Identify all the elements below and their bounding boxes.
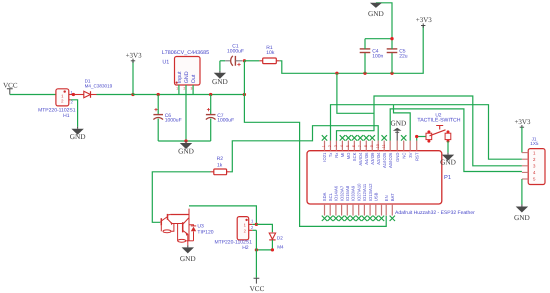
pin 15 3V (409, 141, 411, 151)
pin bottom IO27/A10 (358, 204, 360, 216)
junction C1 right (243, 59, 246, 62)
junction ground rail (184, 139, 187, 142)
pin bottom IO12/A11 (363, 204, 365, 216)
svg-text:3: 3 (190, 86, 192, 90)
svg-text:6: 6 (352, 145, 356, 147)
svg-text:TACTILE-SWITCH: TACTILE-SWITCH (417, 118, 460, 124)
svg-text:GND: GND (514, 213, 530, 222)
pin 3 Rx (335, 141, 337, 151)
svg-text:9: 9 (370, 145, 374, 147)
ground GND (H1) (77, 127, 79, 129)
ground GND (U3) (187, 245, 189, 247)
ground GND (top, C4/C5) (370, 3, 382, 8)
svg-text:1: 1 (176, 86, 178, 90)
svg-text:5: 5 (346, 145, 350, 147)
svg-text:7: 7 (358, 145, 362, 147)
wire D1 to +3V3 junction (97, 94, 134, 96)
wire switch to ground (447, 141, 449, 153)
wire main 6V rail (133, 94, 244, 96)
svg-text:R2: R2 (217, 156, 224, 162)
junction RST (415, 135, 418, 138)
U1 pin GND wire to ground rail (185, 85, 187, 141)
pin bottom BAT (391, 204, 393, 216)
pin 10 A2/I34 (377, 141, 379, 151)
svg-text:A4/I36: A4/I36 (364, 152, 369, 165)
junction C4 (363, 72, 366, 75)
svg-text:H2: H2 (242, 245, 249, 251)
svg-text:U3: U3 (197, 223, 204, 229)
junction C6 (157, 93, 160, 96)
pin 9 A3/I39 (371, 141, 373, 151)
wire Tx to J1 pin2 (331, 105, 522, 160)
svg-text:SCK: SCK (352, 152, 357, 161)
pin 11 A1/IO25 (383, 141, 385, 151)
svg-text:GND: GND (184, 71, 190, 83)
svg-text:3V: 3V (408, 152, 413, 157)
wire C1 junction down to rail (243, 61, 245, 95)
svg-text:MO: MO (346, 152, 351, 159)
pin 12 A0/IO26 (389, 141, 391, 151)
wire emitter to ground (187, 244, 189, 247)
svg-text:A3/I39: A3/I39 (370, 152, 375, 165)
pin bottom IO33/A9 (352, 204, 354, 216)
svg-text:3: 3 (334, 145, 338, 147)
svg-text:SCL: SCL (328, 192, 333, 201)
svg-text:10k: 10k (266, 50, 275, 56)
svg-text:EN: EN (384, 195, 389, 201)
svg-text:RST: RST (414, 152, 419, 161)
svg-text:GND: GND (440, 158, 456, 167)
svg-text:+3V3: +3V3 (514, 118, 531, 126)
wire C4/C5 top ground rail (365, 3, 392, 39)
pin 13 GND (396, 141, 398, 151)
wire D2 bottom to VCC net (256, 249, 272, 251)
svg-text:M4_C383019: M4_C383019 (85, 83, 113, 88)
svg-text:IO13/A12: IO13/A12 (368, 183, 373, 201)
svg-text:2: 2 (328, 145, 332, 147)
pin bottom IO15/A8 (346, 204, 348, 216)
U1 pin Input (178, 85, 180, 95)
svg-text:22u: 22u (399, 54, 408, 60)
svg-text:H1: H1 (63, 113, 70, 119)
svg-text:IO15/A8: IO15/A8 (345, 185, 350, 201)
H1 pin 2 wire to ground (69, 99, 71, 101)
IC P1 Adafruit Huzzah32 ESP32 Feather (307, 151, 442, 204)
pin bottom unnamed (381, 204, 383, 216)
wire RST to switch (416, 137, 418, 141)
svg-text:TIP120: TIP120 (197, 230, 213, 236)
svg-text:+3V3: +3V3 (126, 51, 143, 59)
wire 3V pin jog (394, 105, 411, 141)
svg-text:Rx: Rx (334, 152, 339, 158)
wire C1 left to ground (219, 61, 221, 71)
pin 16 RST (416, 141, 418, 151)
svg-text:IO12/A11: IO12/A11 (362, 183, 367, 201)
wire +3V3 to J1 pin1 (521, 127, 523, 152)
svg-text:GND: GND (390, 119, 406, 128)
connector H1 MTP220-1102S1 (56, 89, 69, 106)
junction C5 (390, 72, 393, 75)
svg-text:U1: U1 (162, 60, 169, 66)
pin bottom IO13/A12 (369, 204, 371, 216)
svg-text:L7806CV_C443685: L7806CV_C443685 (162, 50, 209, 56)
svg-text:1000uF: 1000uF (165, 118, 182, 124)
ground rail C6/C7 (158, 140, 211, 142)
pin bottom USB (375, 204, 377, 216)
diode D1 M4_C383019 (73, 94, 83, 96)
J1 pin 3 (522, 165, 528, 167)
svg-text:IO32/A7: IO32/A7 (339, 185, 344, 201)
capacitor C6 1000uF (157, 95, 159, 115)
junction C5 top (390, 37, 393, 40)
svg-text:8: 8 (364, 145, 368, 147)
pin 14 NC (403, 141, 405, 151)
pin bottom SDA (324, 204, 326, 216)
svg-text:4: 4 (340, 145, 344, 147)
svg-text:MTP220-1102S1: MTP220-1102S1 (38, 107, 76, 113)
wire rail junction to EN pin (244, 95, 386, 227)
svg-text:Input: Input (177, 71, 183, 83)
svg-text:VCC: VCC (250, 285, 265, 293)
svg-text:+3V3: +3V3 (416, 16, 433, 24)
wire VCC to H1 (10, 94, 56, 96)
wire Rx riser (337, 96, 522, 166)
pin 5 MO (347, 141, 349, 151)
svg-text:GND: GND (70, 132, 86, 141)
transistor U3 TIP120 (160, 209, 193, 245)
U1 pin Out (192, 85, 194, 95)
pin bottom SCL (329, 204, 331, 216)
svg-text:IO33/A9: IO33/A9 (351, 185, 356, 201)
ground GND (J1) (521, 205, 523, 207)
svg-text:Adafruit Huzzah32 - ESP32 Feat: Adafruit Huzzah32 - ESP32 Feather (395, 210, 475, 216)
J1 pin 4 (522, 171, 528, 173)
capacitor C5 22u (391, 53, 393, 73)
pin 1 IO21 (324, 141, 326, 151)
diode D2 M4 (269, 233, 275, 239)
svg-text:100n: 100n (372, 54, 383, 60)
svg-text:1k: 1k (217, 162, 223, 168)
junction C7 (209, 93, 212, 96)
pin 7 A5/IO4 (359, 141, 361, 151)
wire R1 to 3V3 rail (280, 26, 424, 74)
power flag VCC (bottom) (254, 278, 260, 283)
junction 3V3 drop (335, 72, 338, 75)
wire A0 to J1 pin4 (390, 109, 522, 172)
svg-text:10: 10 (376, 144, 380, 148)
wire H2 pin2 down to VCC (255, 230, 257, 277)
J1 pin 1 (522, 152, 528, 154)
junction C1/R1 drop (243, 93, 246, 96)
svg-text:1: 1 (322, 145, 326, 147)
svg-text:1000uF: 1000uF (227, 48, 244, 54)
svg-text:MI: MI (340, 153, 345, 158)
pin 8 A4/I36 (365, 141, 367, 151)
svg-text:M4: M4 (277, 244, 284, 249)
svg-text:IO14/A6: IO14/A6 (334, 185, 339, 201)
svg-text:NC: NC (401, 153, 406, 159)
ground GND (C1) (219, 71, 221, 73)
power +3V3 (C4/C5 rail) (421, 23, 425, 27)
svg-text:1X5: 1X5 (530, 141, 539, 146)
pin bottom EN (385, 204, 387, 216)
svg-text:IO27/A10: IO27/A10 (356, 183, 361, 201)
pin 6 SCK (353, 141, 355, 151)
capacitor C7 1000uF (210, 95, 212, 115)
wire H2 pin1 to D2 (256, 224, 272, 232)
svg-text:GND: GND (368, 9, 384, 18)
svg-text:USB: USB (374, 192, 379, 201)
pin bottom IO32/A7 (341, 204, 343, 216)
connector H2 MTP220-1102S1 (237, 217, 249, 240)
svg-text:11: 11 (382, 144, 386, 148)
wire 3V3 into Rx net (337, 73, 374, 113)
svg-text:GND: GND (180, 254, 196, 263)
power +3V3 (input rail) (132, 61, 134, 95)
power +3V3 (J1) (520, 125, 524, 129)
svg-text:IO21: IO21 (322, 152, 327, 162)
junction D2 bottom (271, 248, 274, 251)
svg-text:GND: GND (178, 147, 194, 156)
svg-text:1000uF: 1000uF (217, 118, 234, 124)
pin bottom IO14/A6 (335, 204, 337, 216)
ground GND (regulator) (185, 141, 187, 143)
capacitor C4 100n (364, 53, 366, 73)
ground GND (ESP32 GND pin) (396, 131, 398, 141)
svg-text:2: 2 (183, 86, 185, 90)
svg-text:P1: P1 (444, 175, 451, 181)
svg-text:A0/IO26: A0/IO26 (388, 152, 393, 168)
wire collector to H2 (189, 206, 256, 225)
junction +3V3 (131, 93, 134, 96)
svg-text:Out: Out (191, 74, 197, 83)
svg-text:D2: D2 (277, 235, 283, 240)
svg-text:A5/IO4: A5/IO4 (358, 152, 363, 166)
junction VCC net (255, 248, 258, 251)
ground GND (switch) (447, 153, 449, 155)
svg-text:A1/IO25: A1/IO25 (382, 152, 387, 168)
svg-text:GND: GND (212, 77, 228, 86)
wire R2 right into pin10 net (230, 126, 378, 172)
junction H2 pin1 (255, 223, 258, 226)
svg-text:SDA: SDA (322, 192, 327, 201)
H2 pin stubs (249, 223, 253, 225)
wire R2 left to transistor base (152, 172, 210, 223)
J1 pin 2 (522, 158, 528, 160)
junction H1/D1 (72, 93, 75, 96)
pin 2 Tx (329, 141, 331, 151)
svg-text:A2/I34: A2/I34 (376, 152, 381, 165)
svg-text:BAT: BAT (390, 193, 395, 201)
svg-text:GND: GND (395, 153, 400, 162)
wire J1 pin5 to ground (521, 179, 523, 205)
J1 pin 5 (522, 178, 528, 180)
H1 pin 1 stub (69, 94, 74, 96)
pin 4 MI (341, 141, 343, 151)
